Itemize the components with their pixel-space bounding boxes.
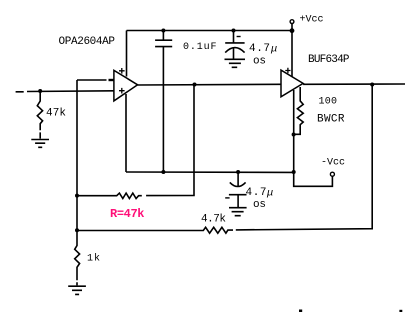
svg-text:μ: μ bbox=[266, 187, 273, 199]
svg-text:0.1uF: 0.1uF bbox=[183, 42, 217, 53]
svg-text:47k: 47k bbox=[46, 108, 66, 120]
svg-text:BWCR: BWCR bbox=[317, 113, 345, 125]
svg-text:os: os bbox=[253, 55, 266, 67]
svg-text:1k: 1k bbox=[87, 253, 100, 265]
svg-text:-Vcc: -Vcc bbox=[321, 158, 345, 169]
svg-text:μ: μ bbox=[270, 43, 277, 55]
svg-text:4.7: 4.7 bbox=[246, 187, 267, 199]
svg-text:os: os bbox=[253, 199, 266, 211]
svg-text:4.7: 4.7 bbox=[249, 43, 270, 55]
svg-text:+Vcc: +Vcc bbox=[300, 15, 324, 26]
svg-text:100: 100 bbox=[319, 97, 338, 108]
svg-text:BUF634P: BUF634P bbox=[308, 54, 350, 66]
svg-text:4.7k: 4.7k bbox=[201, 214, 226, 226]
svg-text:R=47k: R=47k bbox=[110, 207, 145, 221]
svg-text:OPA2604AP: OPA2604AP bbox=[59, 36, 116, 48]
